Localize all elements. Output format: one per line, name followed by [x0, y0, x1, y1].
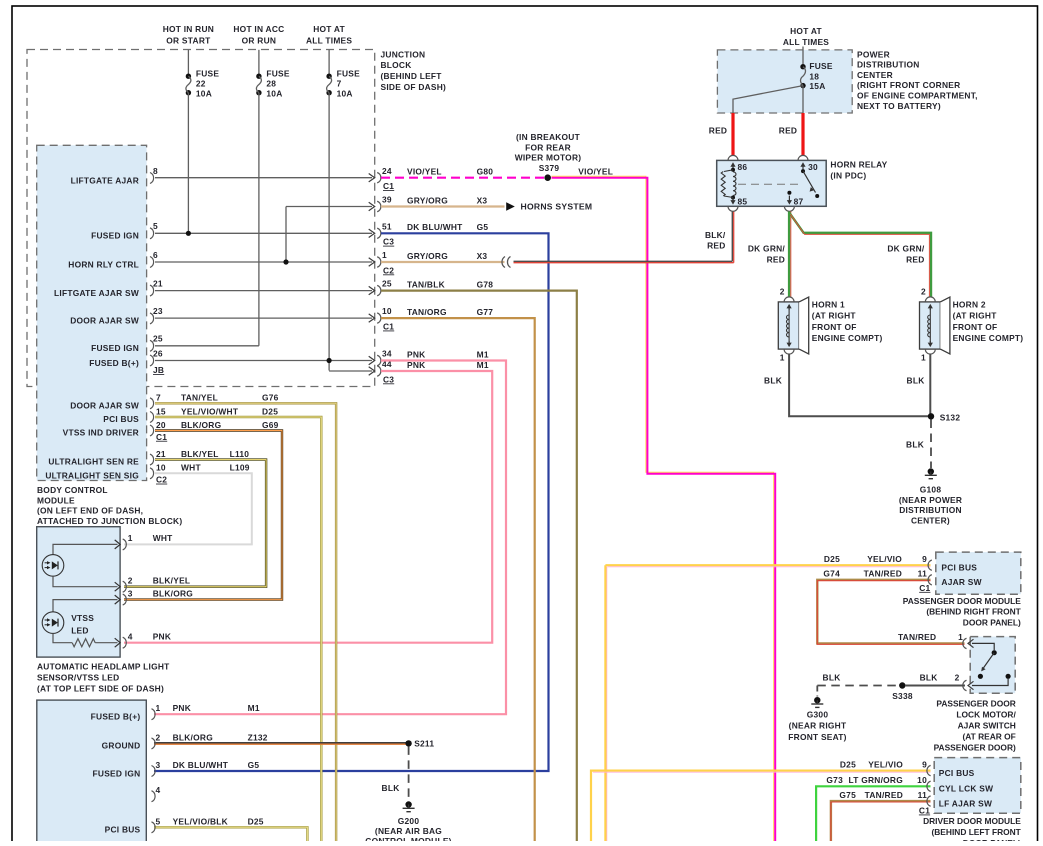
svg-text:87: 87 — [794, 197, 804, 207]
svg-text:(AT TOP LEFT SIDE OF DASH): (AT TOP LEFT SIDE OF DASH) — [37, 683, 164, 693]
svg-text:BLK: BLK — [764, 375, 782, 385]
svg-text:15: 15 — [156, 406, 166, 416]
svg-text:10A: 10A — [266, 89, 282, 99]
svg-text:D25: D25 — [248, 816, 264, 826]
svg-text:TAN/RED: TAN/RED — [864, 569, 902, 579]
svg-text:18: 18 — [809, 71, 819, 81]
svg-text:L110: L110 — [230, 449, 250, 459]
svg-text:M1: M1 — [248, 703, 260, 713]
svg-text:RED: RED — [709, 125, 727, 135]
svg-text:SENSOR/VTSS LED: SENSOR/VTSS LED — [37, 672, 119, 682]
svg-text:OR START: OR START — [166, 35, 211, 45]
svg-text:C3: C3 — [383, 374, 394, 384]
svg-text:L109: L109 — [230, 463, 250, 473]
svg-text:HOT AT: HOT AT — [790, 26, 822, 36]
svg-text:(NEAR RIGHT: (NEAR RIGHT — [789, 721, 847, 731]
svg-text:30: 30 — [808, 162, 818, 172]
svg-text:BLK/ORG: BLK/ORG — [173, 732, 213, 742]
svg-text:BLK/YEL: BLK/YEL — [153, 576, 191, 586]
svg-text:OF ENGINE COMPARTMENT,: OF ENGINE COMPARTMENT, — [857, 91, 978, 101]
svg-text:HOT IN ACC: HOT IN ACC — [233, 24, 284, 34]
svg-text:VTSS IND DRIVER: VTSS IND DRIVER — [63, 428, 139, 438]
svg-text:S338: S338 — [892, 691, 913, 701]
svg-text:9: 9 — [922, 554, 927, 564]
svg-text:S132: S132 — [940, 412, 961, 422]
svg-text:ALL TIMES: ALL TIMES — [306, 35, 352, 45]
svg-text:21: 21 — [153, 278, 163, 288]
svg-text:HORN RLY CTRL: HORN RLY CTRL — [68, 259, 139, 269]
svg-text:YEL/VIO: YEL/VIO — [867, 554, 902, 564]
svg-text:FRONT OF: FRONT OF — [953, 322, 998, 332]
svg-text:BLK: BLK — [907, 375, 925, 385]
svg-text:10: 10 — [156, 463, 166, 473]
svg-text:LIFTGATE AJAR SW: LIFTGATE AJAR SW — [54, 288, 139, 298]
svg-text:G77: G77 — [477, 307, 494, 317]
svg-text:ULTRALIGHT SEN SIG: ULTRALIGHT SEN SIG — [45, 470, 139, 480]
svg-text:WHT: WHT — [153, 533, 173, 543]
svg-text:(RIGHT FRONT CORNER: (RIGHT FRONT CORNER — [857, 80, 960, 90]
svg-text:21: 21 — [156, 449, 166, 459]
svg-text:BLK/: BLK/ — [705, 230, 726, 240]
svg-text:DK GRN/: DK GRN/ — [887, 243, 925, 253]
svg-text:25: 25 — [382, 279, 392, 289]
svg-text:7: 7 — [337, 79, 342, 89]
svg-text:FRONT SEAT): FRONT SEAT) — [788, 732, 846, 742]
svg-text:(IN BREAKOUT: (IN BREAKOUT — [516, 132, 581, 142]
svg-text:34: 34 — [382, 349, 392, 359]
svg-text:DOOR AJAR SW: DOOR AJAR SW — [70, 316, 139, 326]
svg-text:10: 10 — [917, 775, 927, 785]
svg-text:G5: G5 — [477, 222, 489, 232]
svg-text:BLK/ORG: BLK/ORG — [153, 588, 193, 598]
svg-text:2: 2 — [128, 576, 133, 586]
svg-text:VIO/YEL: VIO/YEL — [407, 167, 442, 177]
svg-text:HORN 1: HORN 1 — [812, 299, 845, 309]
svg-text:8: 8 — [153, 166, 158, 176]
svg-text:23: 23 — [153, 306, 163, 316]
svg-text:TAN/RED: TAN/RED — [898, 632, 936, 642]
svg-text:TAN/YEL: TAN/YEL — [181, 393, 218, 403]
svg-text:G78: G78 — [477, 279, 494, 289]
svg-text:4: 4 — [156, 785, 161, 795]
svg-text:1: 1 — [921, 353, 926, 363]
svg-text:FUSE: FUSE — [196, 69, 220, 79]
svg-text:11: 11 — [918, 569, 927, 579]
svg-text:G80: G80 — [477, 167, 494, 177]
svg-text:Z132: Z132 — [248, 732, 268, 742]
svg-text:C2: C2 — [383, 265, 394, 275]
svg-text:D25: D25 — [262, 406, 278, 416]
svg-text:GROUND: GROUND — [102, 741, 141, 751]
svg-text:1: 1 — [382, 250, 387, 260]
svg-text:HORNS SYSTEM: HORNS SYSTEM — [521, 202, 593, 212]
svg-text:S211: S211 — [414, 739, 434, 749]
svg-text:ALL TIMES: ALL TIMES — [783, 37, 829, 47]
svg-text:RED: RED — [906, 255, 924, 265]
svg-text:TAN/BLK: TAN/BLK — [407, 279, 445, 289]
svg-text:25: 25 — [153, 334, 163, 344]
svg-text:BLK: BLK — [382, 783, 400, 793]
svg-text:C1: C1 — [919, 806, 930, 816]
svg-text:C1: C1 — [156, 432, 167, 442]
svg-text:ENGINE COMPT): ENGINE COMPT) — [953, 333, 1024, 343]
svg-text:DRIVER DOOR MODULE: DRIVER DOOR MODULE — [923, 816, 1021, 826]
svg-text:(AT RIGHT: (AT RIGHT — [812, 311, 857, 321]
svg-text:PASSENGER DOOR MODULE: PASSENGER DOOR MODULE — [903, 596, 1021, 606]
svg-text:(AT REAR OF: (AT REAR OF — [962, 732, 1015, 742]
svg-text:JUNCTION: JUNCTION — [381, 49, 426, 59]
svg-text:HOT AT: HOT AT — [313, 24, 345, 34]
svg-text:1: 1 — [128, 533, 133, 543]
svg-text:26: 26 — [153, 348, 163, 358]
svg-text:ATTACHED TO JUNCTION BLOCK): ATTACHED TO JUNCTION BLOCK) — [37, 516, 182, 526]
svg-text:CENTER): CENTER) — [911, 516, 950, 526]
svg-text:D25: D25 — [840, 759, 856, 769]
svg-text:G73: G73 — [826, 775, 843, 785]
svg-text:15A: 15A — [809, 81, 825, 91]
svg-text:OR RUN: OR RUN — [242, 35, 277, 45]
svg-text:WHT: WHT — [181, 463, 201, 473]
svg-text:FRONT OF: FRONT OF — [812, 322, 857, 332]
svg-text:5: 5 — [153, 221, 158, 231]
svg-text:X3: X3 — [477, 251, 488, 261]
svg-text:1: 1 — [156, 703, 161, 713]
svg-text:ULTRALIGHT SEN RE: ULTRALIGHT SEN RE — [48, 457, 139, 467]
svg-text:BLK: BLK — [920, 673, 938, 683]
svg-text:VIO/YEL: VIO/YEL — [578, 166, 613, 176]
svg-text:WIPER MOTOR): WIPER MOTOR) — [515, 153, 582, 163]
svg-text:TAN/RED: TAN/RED — [865, 790, 903, 800]
svg-text:YEL/VIO: YEL/VIO — [868, 759, 903, 769]
svg-text:24: 24 — [382, 166, 392, 176]
svg-text:28: 28 — [266, 79, 276, 89]
svg-text:G69: G69 — [262, 420, 279, 430]
svg-text:NEXT TO BATTERY): NEXT TO BATTERY) — [857, 101, 941, 111]
svg-text:CYL LCK SW: CYL LCK SW — [939, 784, 993, 794]
svg-text:C1: C1 — [383, 322, 394, 332]
svg-text:HORN RELAY: HORN RELAY — [830, 160, 887, 170]
svg-text:FUSED B(+): FUSED B(+) — [91, 712, 141, 722]
svg-text:DOOR PANEL): DOOR PANEL) — [963, 617, 1021, 627]
svg-text:RED: RED — [767, 255, 785, 265]
svg-text:51: 51 — [382, 221, 392, 231]
svg-text:AJAR SW: AJAR SW — [941, 577, 981, 587]
svg-text:1: 1 — [780, 353, 785, 363]
svg-text:22: 22 — [196, 79, 206, 89]
svg-text:FUSE: FUSE — [809, 61, 833, 71]
svg-text:LED: LED — [71, 625, 89, 635]
svg-text:MODULE: MODULE — [37, 495, 75, 505]
svg-text:39: 39 — [382, 195, 392, 205]
svg-text:FUSED IGN: FUSED IGN — [91, 231, 139, 241]
svg-text:AJAR SWITCH: AJAR SWITCH — [958, 721, 1016, 731]
svg-text:SIDE OF DASH): SIDE OF DASH) — [381, 82, 447, 92]
svg-text:D25: D25 — [824, 554, 840, 564]
svg-text:(NEAR AIR BAG: (NEAR AIR BAG — [375, 826, 442, 836]
svg-text:YEL/VIO/WHT: YEL/VIO/WHT — [181, 406, 239, 416]
svg-text:CONTROL MODULE): CONTROL MODULE) — [365, 836, 451, 841]
svg-text:C3: C3 — [383, 237, 394, 247]
svg-text:GRY/ORG: GRY/ORG — [407, 195, 448, 205]
svg-text:(IN PDC): (IN PDC) — [830, 170, 866, 180]
svg-text:YEL/VIO/BLK: YEL/VIO/BLK — [173, 816, 228, 826]
svg-text:G5: G5 — [248, 760, 260, 770]
svg-text:2: 2 — [955, 673, 960, 683]
svg-text:BLK: BLK — [906, 439, 924, 449]
svg-text:RED: RED — [779, 125, 797, 135]
svg-text:POWER: POWER — [857, 49, 890, 59]
svg-text:FUSED B(+): FUSED B(+) — [89, 358, 139, 368]
svg-text:BLK: BLK — [823, 673, 841, 683]
svg-text:PCI BUS: PCI BUS — [939, 768, 975, 778]
svg-text:BLK/ORG: BLK/ORG — [181, 420, 221, 430]
svg-text:AUTOMATIC HEADLAMP LIGHT: AUTOMATIC HEADLAMP LIGHT — [37, 661, 170, 671]
svg-text:(BEHIND LEFT FRONT: (BEHIND LEFT FRONT — [931, 827, 1021, 837]
svg-text:G75: G75 — [839, 790, 856, 800]
svg-text:FUSE: FUSE — [266, 69, 290, 79]
svg-text:S379: S379 — [539, 163, 560, 173]
svg-text:DK BLU/WHT: DK BLU/WHT — [173, 760, 229, 770]
svg-text:PASSENGER DOOR): PASSENGER DOOR) — [934, 743, 1016, 753]
svg-text:(NEAR POWER: (NEAR POWER — [899, 495, 962, 505]
svg-text:VTSS: VTSS — [71, 613, 94, 623]
svg-text:ENGINE COMPT): ENGINE COMPT) — [812, 333, 883, 343]
svg-text:FOR REAR: FOR REAR — [525, 142, 571, 152]
svg-text:JB: JB — [153, 365, 164, 375]
svg-text:3: 3 — [156, 760, 161, 770]
svg-text:DISTRIBUTION: DISTRIBUTION — [899, 505, 962, 515]
svg-text:2: 2 — [921, 287, 926, 297]
svg-text:5: 5 — [156, 816, 161, 826]
svg-text:7: 7 — [156, 393, 161, 403]
svg-text:(BEHIND LEFT: (BEHIND LEFT — [381, 71, 443, 81]
svg-text:PNK: PNK — [173, 703, 191, 713]
svg-text:G108: G108 — [920, 484, 942, 494]
svg-text:6: 6 — [153, 250, 158, 260]
svg-text:2: 2 — [780, 287, 785, 297]
svg-text:G200: G200 — [398, 816, 420, 826]
svg-text:FUSED IGN: FUSED IGN — [91, 343, 139, 353]
svg-text:FUSED IGN: FUSED IGN — [93, 768, 141, 778]
svg-text:CENTER: CENTER — [857, 70, 893, 80]
svg-text:3: 3 — [128, 588, 133, 598]
svg-text:(ON LEFT END OF DASH,: (ON LEFT END OF DASH, — [37, 506, 143, 516]
svg-text:FUSE: FUSE — [337, 69, 361, 79]
svg-text:11: 11 — [918, 790, 927, 800]
svg-text:20: 20 — [156, 420, 166, 430]
svg-text:G74: G74 — [823, 569, 840, 579]
svg-text:PNK: PNK — [407, 349, 425, 359]
svg-text:G76: G76 — [262, 393, 279, 403]
svg-text:10: 10 — [382, 306, 392, 316]
svg-text:LOCK MOTOR/: LOCK MOTOR/ — [956, 710, 1016, 720]
svg-text:C1: C1 — [919, 583, 930, 593]
svg-text:C1: C1 — [383, 181, 394, 191]
svg-text:G300: G300 — [807, 709, 829, 719]
svg-text:HORN 2: HORN 2 — [953, 299, 986, 309]
svg-text:HOT IN RUN: HOT IN RUN — [163, 24, 214, 34]
svg-text:10A: 10A — [337, 89, 353, 99]
svg-text:PASSENGER DOOR: PASSENGER DOOR — [936, 699, 1015, 709]
svg-text:DK GRN/: DK GRN/ — [748, 243, 786, 253]
svg-text:DK BLU/WHT: DK BLU/WHT — [407, 222, 463, 232]
svg-text:BLK/YEL: BLK/YEL — [181, 449, 219, 459]
svg-text:9: 9 — [922, 759, 927, 769]
svg-text:M1: M1 — [477, 349, 489, 359]
svg-text:(AT RIGHT: (AT RIGHT — [953, 311, 998, 321]
svg-text:85: 85 — [738, 197, 748, 207]
svg-text:GRY/ORG: GRY/ORG — [407, 251, 448, 261]
svg-text:BODY CONTROL: BODY CONTROL — [37, 485, 108, 495]
svg-text:LF AJAR SW: LF AJAR SW — [939, 798, 992, 808]
svg-text:(BEHIND RIGHT FRONT: (BEHIND RIGHT FRONT — [926, 607, 1021, 617]
svg-text:RED: RED — [707, 241, 725, 251]
svg-text:PCI BUS: PCI BUS — [103, 414, 139, 424]
svg-text:86: 86 — [738, 162, 748, 172]
svg-text:DOOR AJAR SW: DOOR AJAR SW — [70, 400, 139, 410]
svg-text:LT GRN/ORG: LT GRN/ORG — [849, 775, 903, 785]
svg-text:10A: 10A — [196, 89, 212, 99]
svg-text:DISTRIBUTION: DISTRIBUTION — [857, 60, 920, 70]
svg-text:X3: X3 — [477, 195, 488, 205]
svg-text:PCI BUS: PCI BUS — [941, 563, 977, 573]
svg-text:C2: C2 — [156, 475, 167, 485]
svg-text:LIFTGATE AJAR: LIFTGATE AJAR — [71, 175, 139, 185]
svg-text:2: 2 — [156, 732, 161, 742]
svg-text:1: 1 — [958, 632, 963, 642]
svg-text:4: 4 — [128, 632, 133, 642]
svg-text:TAN/ORG: TAN/ORG — [407, 307, 447, 317]
svg-text:PNK: PNK — [153, 632, 171, 642]
svg-text:PCI BUS: PCI BUS — [105, 825, 141, 835]
svg-text:BLOCK: BLOCK — [381, 60, 412, 70]
